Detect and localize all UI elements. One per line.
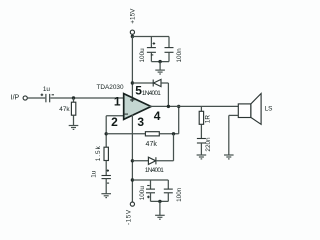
svg-text:1N4001: 1N4001: [145, 167, 164, 174]
op-amp − input mark: [125, 113, 128, 115]
junction −V rail: [131, 178, 134, 181]
svg-text:4: 4: [154, 109, 161, 123]
wire +V caps bottom rail: [151, 61, 169, 63]
capacitor C2 100u: [147, 37, 156, 62]
wire pin2 stub: [106, 116, 125, 147]
capacitor C5 100u: [146, 180, 155, 201]
junction input node: [72, 96, 75, 99]
resistor R2 47k: [145, 132, 159, 136]
wire C1 to op-amp pin 1: [50, 97, 125, 99]
wire output rail: [149, 105, 238, 107]
junction D2 anode: [131, 159, 134, 162]
node +15V terminal: [130, 30, 134, 34]
node I/P terminal: [23, 96, 27, 100]
wire −V top rail: [132, 179, 168, 181]
wire input terminal to C1: [27, 97, 45, 99]
svg-text:1N4001: 1N4001: [142, 90, 161, 97]
wire +V top rail: [132, 36, 169, 38]
capacitor C3 100n: [165, 37, 174, 62]
wire +V spine to pin 5: [131, 37, 133, 99]
svg-text:100u: 100u: [139, 48, 146, 63]
resistor R4 1R: [199, 106, 203, 124]
svg-text:1R: 1R: [205, 115, 212, 124]
wire output to feedback (vertical): [178, 106, 180, 133]
junction +V caps ground: [158, 60, 161, 63]
svg-text:1u: 1u: [90, 170, 97, 178]
junction D2 cathode node: [172, 132, 175, 135]
capacitor C4 1u: [102, 169, 111, 183]
wire pin3 spine down: [131, 115, 133, 203]
svg-text:100u: 100u: [139, 186, 146, 201]
junction pin2 / feedback: [105, 132, 108, 135]
svg-text:2: 2: [111, 115, 118, 129]
wire C4 to ground: [105, 179, 107, 194]
wire feedback row left: [106, 133, 145, 135]
wire +15V terminal to rail: [131, 34, 133, 36]
svg-text:I/P: I/P: [11, 95, 20, 102]
capacitor C7 220n: [197, 139, 206, 144]
svg-text:47k: 47k: [146, 141, 158, 148]
wire speaker return: [229, 115, 239, 154]
svg-text:-15V: -15V: [125, 209, 132, 225]
op-amp + input mark: [130, 98, 134, 102]
capacitor C1 1u: [41, 94, 54, 103]
ground (C4): [101, 194, 111, 198]
wire −V caps bottom rail: [151, 200, 169, 202]
svg-text:5: 5: [135, 83, 142, 97]
junction D1 cathode node: [131, 81, 134, 84]
junction output / D1: [167, 105, 170, 108]
svg-text:220n: 220n: [205, 137, 212, 152]
diode D1 1N4001: [132, 79, 168, 86]
ground (LS): [224, 155, 234, 159]
svg-text:1u: 1u: [43, 86, 51, 93]
ground (+V caps): [155, 62, 165, 74]
junction output / feedback: [177, 105, 180, 108]
ground (R1): [69, 126, 79, 130]
svg-text:1.5k: 1.5k: [95, 145, 102, 161]
svg-text:+15V: +15V: [130, 8, 137, 24]
resistor R1 47k: [71, 98, 75, 125]
svg-text:47k: 47k: [59, 106, 70, 113]
svg-text:TDA2030: TDA2030: [97, 84, 124, 91]
wire R3 to C4: [105, 161, 107, 176]
wire D2 cathode up: [173, 134, 175, 161]
wire C7 to ground: [200, 143, 202, 155]
wire feedback row right: [159, 133, 178, 135]
svg-text:LS: LS: [265, 106, 273, 113]
speaker LS: [238, 94, 261, 125]
svg-text:100n: 100n: [176, 187, 183, 202]
junction +V rail left: [131, 35, 134, 38]
junction −V caps ground: [158, 200, 161, 203]
diode D2 1N4001: [132, 157, 173, 164]
wire R4 to C7: [200, 124, 202, 138]
ground (C7): [197, 155, 207, 159]
wire D1 to output rail: [167, 83, 169, 106]
node −15V terminal: [130, 202, 134, 206]
resistor R3 1.5k: [104, 147, 108, 160]
ground (−V caps): [155, 201, 165, 219]
svg-text:100n: 100n: [176, 48, 183, 63]
svg-text:3: 3: [137, 115, 144, 129]
svg-text:1: 1: [114, 94, 121, 108]
capacitor C6 100n: [164, 180, 173, 201]
op-amp U1 TDA2030: [124, 94, 151, 120]
